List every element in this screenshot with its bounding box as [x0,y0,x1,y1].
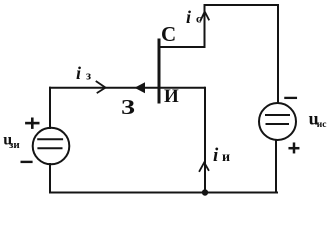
wire: left vertical from gate down to source u_зи [49,88,51,128]
transistor VT (JFET) channel line [158,40,161,102]
wire: gate lead + source lead horizontal (З to И) [50,87,204,89]
wire: top horizontal (drain branch to u_ис) [205,5,279,103]
svg-text:и: и [222,150,230,165]
svg-text:i: i [186,7,191,27]
polarity minus of u_зи [22,161,32,163]
svg-text:i: i [76,63,81,83]
current arrow i_с (points up) [201,12,209,21]
wire: left vertical below u_зи [49,164,51,192]
polarity minus of u_ис [285,97,296,99]
svg-text:И: И [164,86,179,107]
svg-text:с: с [196,12,202,26]
wire: source vertical (И down to bottom node) [204,88,206,193]
node: junction dot at bottom [202,189,208,195]
wire: drain lead of transistor [159,46,205,48]
wire: right vertical below u_ис [275,140,277,192]
polarity plus of u_зи [26,122,38,125]
svg-text:ис: ис [317,120,327,130]
polarity plus of u_ис [290,147,299,150]
wire: bottom horizontal [50,192,277,194]
voltage source u_зи: circle [33,128,70,165]
svg-text:С: С [161,22,176,46]
current arrow i_з on gate wire (points right) [97,82,106,93]
svg-text:з: з [86,69,91,83]
voltage source u_зи: inner bars [38,138,62,140]
svg-text:З: З [121,96,135,119]
current arrow i_и (points up) [200,163,209,172]
svg-text:зи: зи [9,139,20,151]
voltage source u_ис: circle [259,103,296,140]
voltage source u_ис: inner bars [266,114,289,116]
transistor VT gate arrowhead (points left, p-channel) [135,82,146,93]
svg-text:i: i [213,145,219,166]
